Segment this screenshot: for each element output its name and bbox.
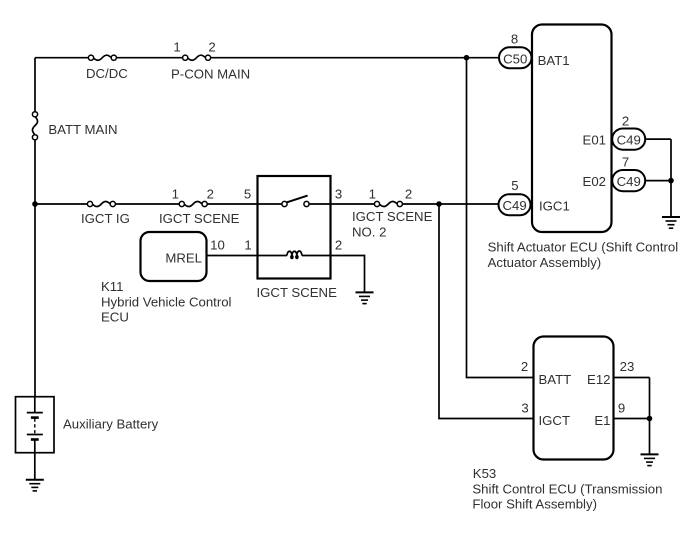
- svg-text:IGCT: IGCT: [539, 413, 571, 428]
- svg-text:BATT MAIN: BATT MAIN: [48, 122, 117, 137]
- svg-text:5: 5: [511, 178, 518, 193]
- battery box: [16, 397, 55, 453]
- svg-text:P-CON MAIN: P-CON MAIN: [171, 66, 250, 81]
- svg-text:IGCT SCENE: IGCT SCENE: [257, 285, 338, 300]
- fuse IGCT SCENE: [179, 201, 207, 206]
- svg-text:2: 2: [335, 238, 342, 253]
- svg-text:IGCT SCENE: IGCT SCENE: [159, 211, 240, 226]
- svg-text:ECU: ECU: [101, 310, 129, 325]
- ECU K11 MREL box: [141, 232, 207, 281]
- svg-text:7: 7: [622, 155, 629, 170]
- wire MREL to relay coil: [207, 255, 288, 257]
- wire E02 to ground rail: [645, 180, 671, 182]
- wire into battery: [34, 397, 36, 413]
- wire IGCT branch to K53 IGCT: [439, 204, 534, 419]
- relay coil: [287, 251, 302, 259]
- ground E02: [662, 217, 680, 228]
- fuse BATT MAIN (vertical): [32, 112, 37, 140]
- svg-text:NO. 2: NO. 2: [352, 224, 386, 239]
- fuse DC/DC: [88, 55, 116, 60]
- ground K53: [641, 454, 659, 465]
- svg-text:C49: C49: [617, 133, 641, 148]
- svg-text:9: 9: [618, 400, 625, 415]
- svg-text:8: 8: [511, 32, 518, 47]
- wire C50 branch to K53 BATT: [467, 58, 534, 378]
- node junction C50 branch: [464, 55, 470, 61]
- fuse IGCT IG: [87, 201, 115, 206]
- relay box IGCT SCENE: [258, 176, 331, 279]
- wire row1 battery to C50: [35, 57, 499, 59]
- svg-text:3: 3: [521, 400, 528, 415]
- battery cell plates: [27, 413, 43, 440]
- wire left vertical battery main: [34, 58, 36, 397]
- svg-text:2: 2: [208, 40, 215, 55]
- wire K53 ground rail vertical: [649, 378, 651, 454]
- relay switch contacts: [282, 196, 309, 207]
- wire relay coil to ground: [302, 256, 365, 293]
- svg-text:E12: E12: [587, 372, 610, 387]
- svg-text:Hybrid Vehicle Control: Hybrid Vehicle Control: [101, 294, 232, 309]
- svg-text:IGC1: IGC1: [539, 199, 570, 214]
- svg-text:Shift Control ECU (Transmissio: Shift Control ECU (Transmission: [472, 481, 662, 496]
- node junction E02 ground rail: [668, 178, 674, 184]
- node junction IGCT branch: [436, 201, 442, 207]
- svg-text:IGCT IG: IGCT IG: [81, 211, 130, 226]
- fuse IGCT SCENE NO. 2: [374, 201, 402, 206]
- fuse P-CON MAIN: [183, 55, 211, 60]
- wire ground rail vertical: [670, 139, 672, 216]
- svg-text:2: 2: [207, 186, 214, 201]
- svg-text:Floor Shift Assembly): Floor Shift Assembly): [472, 497, 597, 512]
- wire E1 to ground rail: [614, 418, 650, 420]
- svg-text:3: 3: [335, 186, 342, 201]
- svg-text:5: 5: [244, 186, 251, 201]
- svg-text:K53: K53: [473, 466, 496, 481]
- svg-text:BATT: BATT: [539, 372, 572, 387]
- connector C49 E01: [612, 129, 645, 150]
- svg-text:10: 10: [210, 238, 225, 253]
- svg-text:2: 2: [622, 113, 629, 128]
- svg-text:1: 1: [244, 238, 251, 253]
- svg-text:Shift Actuator ECU (Shift Cont: Shift Actuator ECU (Shift Control: [488, 240, 679, 255]
- node junction row2 at battery main: [32, 201, 38, 207]
- svg-text:E1: E1: [594, 413, 610, 428]
- wire battery to ground: [34, 440, 36, 480]
- svg-text:BAT1: BAT1: [538, 53, 570, 68]
- svg-text:E02: E02: [583, 174, 606, 189]
- svg-text:23: 23: [620, 359, 635, 374]
- svg-text:2: 2: [405, 186, 412, 201]
- wire row2 battery to C49 IGC1: [35, 203, 499, 205]
- svg-text:C49: C49: [502, 198, 526, 213]
- ECU K53 box: [534, 337, 614, 460]
- svg-text:1: 1: [173, 40, 180, 55]
- svg-text:E01: E01: [583, 132, 606, 147]
- svg-text:2: 2: [521, 359, 528, 374]
- ground battery: [26, 480, 44, 491]
- ground relay coil: [356, 292, 374, 303]
- svg-text:C50: C50: [503, 52, 527, 67]
- ECU shift actuator box: [532, 25, 612, 233]
- node junction E1 ground rail: [647, 416, 653, 422]
- svg-text:MREL: MREL: [165, 250, 202, 265]
- svg-text:C49: C49: [617, 174, 641, 189]
- wire E12 to ground rail: [614, 377, 650, 379]
- svg-text:1: 1: [172, 186, 179, 201]
- svg-text:IGCT SCENE: IGCT SCENE: [352, 209, 433, 224]
- connector C49 E02: [612, 170, 645, 191]
- connector C49 IGC1: [499, 194, 531, 215]
- svg-text:1: 1: [369, 186, 376, 201]
- svg-text:K11: K11: [101, 279, 124, 294]
- wire E01 to ground rail: [645, 138, 671, 140]
- svg-text:DC/DC: DC/DC: [86, 66, 128, 81]
- connector C50 BAT1: [499, 47, 532, 68]
- svg-text:Actuator Assembly): Actuator Assembly): [488, 255, 602, 270]
- svg-text:Auxiliary Battery: Auxiliary Battery: [63, 416, 159, 431]
